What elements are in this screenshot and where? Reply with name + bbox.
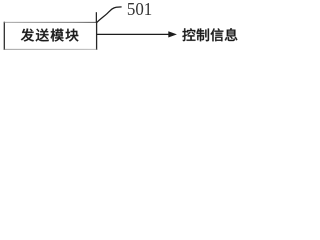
svg-text:501: 501: [127, 0, 152, 19]
